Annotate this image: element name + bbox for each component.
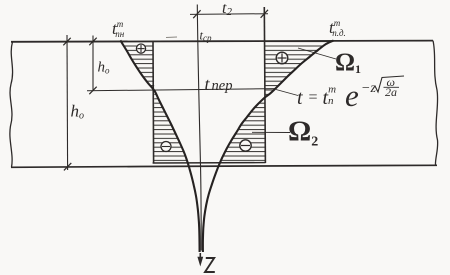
hatch bottom line y=163 <box>153 162 266 164</box>
right break edge (wavy) <box>433 41 438 166</box>
formula t = t_n^m e^(-z sqrt(w/2a)) <box>297 75 404 113</box>
center axis line (t_cp line continuing to z axis) <box>197 5 201 251</box>
hatched region Omega2-left (negative, between line x=153 and curve t_pn) <box>153 91 188 164</box>
plate top surface line <box>11 41 433 42</box>
hatched region Omega2-right (negative, between curve t_pd and line x=265) <box>220 98 265 164</box>
hatched region Omega1-left (positive, between curve t_pn and line x=153) <box>120 40 154 90</box>
temperature curve t_pd (right) <box>203 41 334 253</box>
formula leader line <box>276 90 298 96</box>
minus symbol left <box>161 142 171 152</box>
dimension t2 (line, arrows, label) <box>190 0 268 18</box>
hatched region Omega1-right (positive, between line x=265 and curve t_pd) <box>265 41 333 98</box>
svg-text:−z: −z <box>361 81 376 96</box>
label z <box>205 258 215 272</box>
temperature curve t_pn (left) <box>120 40 199 252</box>
right boundary vertical line x=265 <box>264 7 265 163</box>
plus symbol left <box>136 44 145 53</box>
minus symbol right <box>240 140 251 151</box>
left break edge (wavy) <box>10 42 13 168</box>
svg-text:t: t <box>297 87 303 109</box>
svg-text:=: = <box>309 89 318 106</box>
z axis arrow <box>197 253 203 267</box>
label Omega1 with leader <box>298 48 361 76</box>
t_per level line <box>87 89 276 91</box>
svg-text:e: e <box>345 78 359 113</box>
plus symbol right <box>276 52 288 64</box>
plate bottom surface line <box>11 165 437 167</box>
radical sqrt(w/2a) <box>375 76 404 92</box>
left boundary vertical line x=153 <box>152 41 155 163</box>
dimension h0 inner (upper short) <box>89 36 110 95</box>
label Omega2 with leader <box>252 116 318 150</box>
dimension h0 outer (left tall) <box>63 35 84 170</box>
svg-text:tmпн: tmпн <box>112 19 125 39</box>
svg-text:2a: 2a <box>385 85 397 99</box>
stray pencil dash above top line <box>166 36 177 39</box>
